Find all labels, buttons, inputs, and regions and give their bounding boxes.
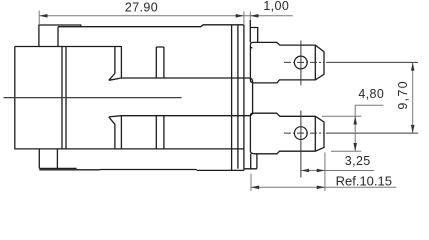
ext at lug base <box>249 12 251 21</box>
shelf upper + web + shelf lower <box>121 78 252 116</box>
svg-text:3,25: 3,25 <box>345 154 371 168</box>
arrow 27.90 left <box>39 14 47 18</box>
dim line 4,80 + leader <box>355 105 383 151</box>
arrow 3,25 right <box>317 169 325 173</box>
dim line 3,25 <box>301 170 374 172</box>
svg-text:1,00: 1,00 <box>263 0 289 13</box>
lug T2 hole <box>294 127 307 140</box>
ledge above tab1 <box>250 20 257 42</box>
body top edge <box>15 46 122 48</box>
mid parting line <box>4 97 182 99</box>
svg-text:9,70: 9,70 <box>396 80 410 110</box>
lug T2 outline <box>250 113 324 154</box>
arrow Ref left <box>251 186 259 190</box>
centerline T1 extension to 9.70 <box>326 61 418 63</box>
dim line 27.90 / 1,00 <box>39 15 292 17</box>
svg-text:4,80: 4,80 <box>358 87 384 101</box>
arrow 1,00 right (points left, head right of tip) <box>250 14 258 18</box>
ext 4,80 bottom <box>331 150 361 152</box>
svg-text:Ref.10.15: Ref.10.15 <box>336 173 392 188</box>
dim line Ref.10.15 <box>251 186 396 188</box>
base bottom lines <box>39 169 257 171</box>
lug T2 bend line <box>314 116 316 151</box>
rib B lower <box>156 116 164 149</box>
arrow 3,25 left <box>301 169 309 173</box>
arrow 4,80 bottom <box>353 143 357 151</box>
rib A lower with notch <box>109 116 122 149</box>
arrow 9,70 top <box>411 62 415 70</box>
ext 27.90 left <box>38 11 40 25</box>
arrow 4,80 top <box>353 116 357 124</box>
rib B upper <box>156 47 164 78</box>
centerline T1 horizontal <box>284 61 324 63</box>
ext lug tip <box>324 153 326 192</box>
centerline T2 horizontal <box>284 132 324 134</box>
body right edge <box>243 25 245 169</box>
top cover surface <box>58 25 244 47</box>
ext Ref left <box>250 174 252 192</box>
svg-text:27.90: 27.90 <box>125 1 158 15</box>
inner vertical pair left <box>62 47 66 149</box>
foot <box>39 149 76 169</box>
lug T1 outline <box>250 42 324 83</box>
rib A upper with notch <box>109 47 122 81</box>
ext 4,80 top <box>322 115 361 117</box>
arrow 9,70 bottom <box>411 125 415 133</box>
lug T1 bend line <box>314 45 316 80</box>
dim line 9,70 <box>412 62 414 133</box>
centerline T2 extension to 9.70 <box>326 132 418 134</box>
lug T1 root nub <box>250 47 252 49</box>
lug T1 hole <box>294 56 307 69</box>
body bottom edge <box>14 148 244 150</box>
centerline T2 vertical + 3.25 extension <box>300 111 302 178</box>
arrow 27.90 right <box>236 14 244 18</box>
arrow Ref right <box>317 186 325 190</box>
inner verticals right <box>232 25 238 170</box>
leg below tab2 <box>251 154 257 169</box>
ext at body right edge <box>243 12 245 25</box>
top-left block <box>39 25 81 47</box>
body left edge <box>14 47 16 149</box>
centerline T1 vertical <box>300 41 302 86</box>
